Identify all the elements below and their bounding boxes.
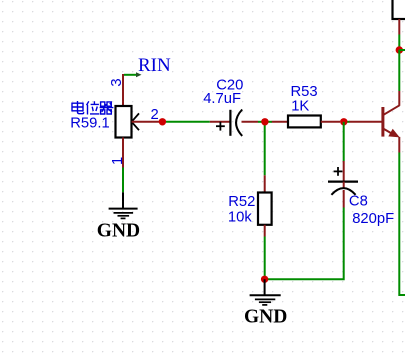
svg-text:C8: C8	[349, 193, 368, 209]
svg-text:R59.1: R59.1	[70, 116, 110, 132]
wire: wiper lead (dark red)	[132, 121, 159, 123]
capacitor C8 curved plate	[331, 188, 355, 195]
resistor R52 body	[258, 193, 272, 225]
capacitor C20 straight plate	[229, 110, 231, 136]
wire: R52 bottom pin lead (dark red)	[264, 225, 266, 237]
wire: C8 bottom lead (dark red)	[343, 190, 345, 208]
wire: RIN stub (green with arrow)	[124, 72, 142, 77]
capacitor C8 plus sign	[334, 167, 343, 176]
wire: green emitter vertical down	[399, 153, 405, 296]
wire: green stub at base junction	[344, 121, 350, 123]
wire: short green before junction	[258, 121, 272, 123]
电	[72, 101, 84, 114]
potentiometer wiper arrow	[132, 113, 139, 130]
wire: R53 left pin lead (dark red)	[272, 121, 288, 123]
wire: pot pin 3 lead (dark red)	[122, 74, 124, 106]
wire: green to left ground	[122, 168, 124, 193]
resistor R53 body	[288, 116, 321, 128]
svg-text:1K: 1K	[291, 98, 309, 114]
svg-text:2: 2	[151, 107, 159, 123]
svg-text:R52: R52	[228, 194, 255, 210]
wire: R52 top pin lead (dark red)	[264, 175, 266, 192]
wire: green vertical from base node to C8	[343, 122, 345, 161]
wire: C20 right pin lead (dark red)	[242, 121, 259, 123]
wire: green to ground junction	[264, 237, 266, 280]
junction dot (base node)	[340, 118, 347, 125]
svg-text:820pF: 820pF	[352, 211, 394, 227]
wire: C8 plus lead (dark red)	[343, 161, 345, 181]
wire: green from C20 node down to R52	[264, 122, 266, 176]
wire: C20 left pin lead (dark red)	[210, 121, 230, 123]
potentiometer R59.1 body	[116, 106, 132, 138]
capacitor C20 curved plate	[236, 110, 242, 136]
capacitor C8 top plate	[328, 181, 358, 183]
wire: green from pot wiper node to C20 (left segment)	[166, 121, 210, 123]
ground GND (left)	[109, 192, 138, 218]
svg-text:4.7uF: 4.7uF	[203, 91, 241, 107]
label 电位器 (drawn glyphs)	[72, 101, 113, 115]
ground GND (right)	[250, 279, 281, 305]
junction dot (ground node)	[261, 276, 268, 283]
svg-text:GND: GND	[97, 220, 140, 241]
svg-text:RIN: RIN	[138, 55, 171, 76]
capacitor C20 plus sign	[216, 122, 225, 131]
wire: green vertical to junction	[398, 35, 400, 51]
wire: C8 lead between plates (dark red)	[343, 182, 345, 189]
wire: green stub to right edge	[399, 49, 405, 51]
wire: green vertical from junction to collector	[398, 50, 400, 91]
位	[87, 101, 100, 114]
wire: green from C8 down and left to ground node	[265, 208, 344, 280]
resistor (unnamed, top right, partially visible)	[393, 0, 405, 19]
transistor Q collector diagonal	[384, 105, 400, 115]
器	[100, 102, 114, 114]
wire: R53 right pin lead (dark red)	[321, 121, 340, 123]
svg-text:10k: 10k	[228, 209, 252, 225]
wire: emitter pin lead (dark red)	[398, 137, 400, 153]
transistor Q (NPN) base bar	[381, 107, 384, 137]
svg-text:GND: GND	[244, 306, 287, 327]
wire: collector pin lead (dark red)	[398, 91, 400, 106]
wire: top-right resistor lead (pin)	[398, 19, 400, 35]
transistor Q emitter diagonal with arrow	[384, 129, 400, 138]
wire: pot pin 1 lead (dark red)	[122, 138, 124, 168]
junction dot (top right)	[396, 46, 403, 53]
junction dot (C20/R52/R53 node)	[261, 118, 268, 125]
wire: base lead horizontal (dark red)	[349, 121, 383, 123]
junction dot (wiper node)	[159, 118, 166, 125]
